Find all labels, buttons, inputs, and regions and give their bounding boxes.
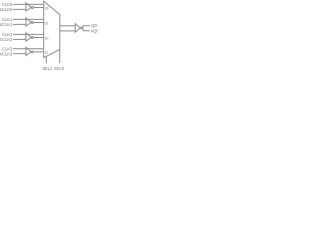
wire Q0 output [82,26,90,28]
svg-text:nCLK2: nCLK2 [0,37,13,42]
buffer U3 (CLK2 receiver) [26,33,31,41]
wire SEL1 [45,56,47,63]
buffer U2 (CLK1 receiver) [26,18,31,26]
svg-text:SEL0: SEL0 [54,66,65,71]
wire U3 output to mux input 10 [33,37,44,39]
wire nQ0 output [82,28,90,31]
bubble U4 output [31,51,33,53]
wire U2 output to mux input 01 [33,22,44,24]
wire mux output complement [60,30,75,32]
svg-text:nCLK3: nCLK3 [0,51,13,56]
svg-text:11: 11 [45,50,49,54]
wire CLK2 to mux [13,33,44,35]
wire U4 output to mux input 11 [33,51,44,53]
wire CLK1 to mux [13,18,44,20]
svg-text:10: 10 [45,37,49,41]
wire U1 output to mux input 00 [33,7,44,9]
wire nCLK2 input [13,38,26,40]
svg-text:01: 01 [45,22,49,26]
wire nCLK3 input [13,53,26,55]
buffer U1 (CLK0 receiver) [26,3,31,11]
wire mux output true [60,25,75,27]
wire nCLK0 input [13,8,26,10]
buffer U4 (CLK3 receiver) [26,47,31,55]
multiplexer U5 (4:1 clock mux) [44,1,60,58]
svg-text:00: 00 [45,7,49,11]
bubble U2 output [31,22,33,24]
op-amp U6 (output driver) [75,24,80,33]
svg-text:SEL1: SEL1 [42,66,53,71]
wire SEL0 [59,49,61,63]
bubble U6 output [81,27,83,29]
wire CLK3 to mux [13,48,44,50]
svg-text:nCLK1: nCLK1 [0,22,13,27]
svg-text:nCLK0: nCLK0 [0,7,13,12]
svg-text:nQ0: nQ0 [91,28,98,33]
wire CLK0 to mux [13,3,44,5]
wire nCLK1 input [13,23,26,25]
bubble U1 output [31,7,33,9]
bubble U3 output [31,37,33,39]
